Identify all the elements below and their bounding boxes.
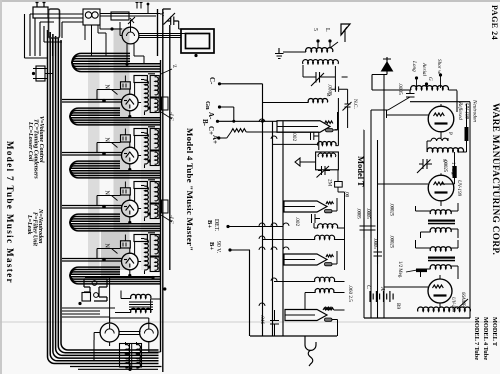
- svg-text:.00025: .00025: [442, 159, 447, 173]
- grid feed lines stage 4: [62, 206, 122, 209]
- svg-text:90 V.: 90 V.: [215, 241, 221, 254]
- svg-text:MODEL 7 Tube: MODEL 7 Tube: [473, 317, 480, 360]
- antenna coil T: [411, 86, 449, 90]
- svg-text:B9: B9: [395, 303, 401, 309]
- neutralizer label stage 2: [112, 90, 118, 95]
- svg-text:P: P: [447, 132, 453, 135]
- bottom border mid: [250, 335, 337, 337]
- tuning condenser mid: [311, 72, 326, 86]
- left bus T: [364, 75, 384, 319]
- antenna binding posts: [33, 66, 53, 81]
- wires tube V1 to loop: [139, 21, 186, 38]
- losser coil box stage 5: [150, 257, 159, 272]
- battery plug box: [33, 3, 48, 19]
- losser coil LC 1: [162, 97, 169, 110]
- RF transformer primary stage 2: [145, 80, 149, 111]
- svg-text:Long: Long: [411, 60, 417, 72]
- grid condenser stage 5: [121, 241, 131, 248]
- audio tube wiring: [94, 317, 161, 361]
- svg-text:Neutrodon: Neutrodon: [472, 99, 478, 122]
- small box top: [111, 12, 129, 20]
- svg-text:.00025: .00025: [389, 203, 394, 217]
- switch box: [49, 9, 60, 38]
- tube V2: [122, 94, 139, 111]
- coil8: [315, 277, 335, 281]
- long top double wire: [100, 14, 161, 17]
- speaker cord: [305, 336, 316, 366]
- wire U-bundle 5: [70, 267, 161, 284]
- svg-text:.0005: .0005: [372, 238, 377, 249]
- crossing hops: [259, 119, 289, 306]
- svg-text:C+: C+: [207, 126, 215, 135]
- tube V4: [122, 200, 139, 217]
- loop antenna box: [181, 29, 214, 53]
- svg-text:A+: A+: [211, 135, 219, 144]
- ground symbol mid: [275, 48, 284, 59]
- bottom border: [70, 364, 162, 369]
- svg-text:.002: .002: [294, 217, 300, 226]
- grid condenser stage 3: [121, 135, 131, 142]
- wire U-bundle 4: [70, 214, 161, 231]
- coil9: [315, 289, 334, 293]
- grid leak stage 3: [134, 129, 147, 136]
- wire V1 down: [127, 43, 144, 64]
- tube V7: [140, 323, 158, 341]
- RF transformer secondary stage 3: [150, 129, 159, 151]
- schematic right border: [158, 9, 170, 372]
- svg-text:-LC: -LC: [168, 112, 174, 121]
- svg-text:.0005: .0005: [365, 208, 370, 219]
- filament rheostat T: [418, 307, 471, 311]
- grid feed lines stage 5: [62, 259, 122, 262]
- tube V3: [122, 147, 139, 164]
- svg-text:.00025: .00025: [389, 235, 394, 249]
- svg-text:Model 4 Tube "Music Master": Model 4 Tube "Music Master": [185, 128, 195, 251]
- svg-text:N: N: [104, 191, 110, 196]
- tube T2: [428, 175, 454, 201]
- coil7: [315, 235, 335, 239]
- neutralizer label stage 5: [112, 249, 118, 254]
- grid resistor d: [323, 308, 334, 310]
- svg-text:Reflexed: Reflexed: [457, 101, 464, 120]
- antenna coupling wire: [283, 51, 306, 53]
- svg-text:MODEL 4 Tube: MODEL 4 Tube: [482, 317, 489, 360]
- svg-text:.0005: .0005: [356, 208, 361, 219]
- tuning condenser 2: [317, 166, 331, 178]
- svg-text:5: 5: [312, 28, 318, 31]
- svg-text:N.C.: N.C.: [352, 99, 358, 109]
- coil6: [318, 224, 338, 228]
- wire U-bundle 3: [70, 161, 161, 178]
- audio wiring upper: [85, 277, 161, 323]
- volume control V: [163, 9, 179, 25]
- neutralizer diag top: [128, 17, 135, 24]
- tube V6: [100, 323, 119, 342]
- stage wiring 5: [97, 233, 155, 276]
- svg-text:2M: 2M: [327, 179, 333, 187]
- svg-text:N: N: [104, 85, 110, 90]
- tuning condenser box TC: [83, 9, 100, 25]
- svg-text:'L: 'L: [171, 64, 177, 68]
- svg-text:G: G: [427, 77, 433, 81]
- svg-text:N: N: [104, 138, 110, 143]
- svg-text:B: B: [325, 93, 331, 97]
- grid feed lines stage 2: [62, 100, 122, 103]
- coil P: [431, 138, 448, 141]
- grid leak stage 2: [134, 76, 147, 83]
- primary coil: [306, 48, 333, 52]
- tube T3: [428, 279, 452, 303]
- RF transformer secondary stage 4: [150, 182, 159, 204]
- scan edge left: [0, 0, 2, 374]
- svg-text:-LC: -LC: [168, 215, 174, 224]
- svg-text:A: A: [379, 286, 385, 291]
- svg-text:Gn: Gn: [204, 101, 211, 110]
- svg-text:V: V: [158, 12, 164, 17]
- svg-text:UV-199: UV-199: [456, 180, 462, 197]
- main wiring bus bundle: [48, 30, 159, 364]
- transformer box mid: [316, 152, 339, 170]
- losser coil box stage 3: [150, 151, 159, 166]
- svg-text:.00: .00: [344, 191, 349, 198]
- antenna arrow T: [382, 62, 393, 71]
- RF transformer primary stage 5: [145, 239, 149, 270]
- interstage coil4: [318, 142, 336, 146]
- stage wiring 4: [97, 180, 155, 223]
- AF transformer T2: [430, 247, 451, 251]
- tube T1: [428, 106, 454, 132]
- plate feed to coil B: [263, 102, 308, 104]
- svg-text:Model 7 Tube Music Master: Model 7 Tube Music Master: [5, 141, 15, 284]
- output jack bracket: [84, 279, 107, 301]
- RF transformer secondary stage 2: [150, 76, 159, 98]
- svg-text:1/2 Meg.: 1/2 Meg.: [397, 261, 402, 278]
- borders T: [364, 317, 470, 319]
- AF transformer T1: [430, 210, 451, 214]
- svg-text:B+: B+: [206, 220, 213, 228]
- faint horizontal rule: [0, 321, 500, 323]
- svg-text:PAGE 24: PAGE 24: [490, 5, 499, 40]
- wire U-bundle 2: [70, 108, 161, 125]
- grid condenser stage 2: [121, 82, 131, 89]
- neutralizer label stage 4: [112, 196, 118, 201]
- top-left frame mesh: [25, 14, 84, 58]
- tube V1: [122, 27, 139, 44]
- tube A bullet: [277, 121, 330, 133]
- grid leak stage 5: [134, 235, 147, 242]
- ground arrow mid: [295, 158, 316, 166]
- bus verticals mid: [250, 84, 284, 336]
- losser coil box stage 2: [150, 98, 159, 113]
- stage wiring 2: [97, 74, 155, 117]
- leak L dashed label: [161, 69, 172, 74]
- secondary coil: [303, 60, 339, 64]
- neutralizer label stage 3: [112, 143, 118, 148]
- losser coil box stage 4: [150, 204, 159, 219]
- losser coil LC 2: [162, 200, 169, 213]
- jack small box: [82, 293, 91, 302]
- RF transformer secondary stage 5: [150, 235, 159, 257]
- N.C. capacitor: [343, 89, 352, 128]
- antenna mid: [341, 24, 350, 35]
- svg-text:L: L: [324, 28, 330, 32]
- svg-text:Aerial: Aerial: [421, 62, 427, 77]
- svg-text:LC=Losser Coil: LC=Losser Coil: [27, 121, 33, 162]
- coil S: [427, 148, 463, 152]
- tube B bullet: [284, 201, 327, 212]
- output transformer: [120, 344, 142, 368]
- tube V5: [122, 253, 139, 270]
- svg-text:DET.: DET.: [213, 219, 219, 232]
- shield shading columns: [114, 28, 130, 270]
- svg-text:N: N: [104, 244, 110, 249]
- svg-text:C-: C-: [208, 77, 216, 85]
- grid condenser stage 4: [121, 188, 131, 195]
- RF transformer primary stage 4: [145, 186, 149, 217]
- plate coil B: [308, 102, 309, 104]
- svg-text:Shor w.: Shor w.: [436, 59, 442, 74]
- grid leak stage 4: [134, 182, 147, 189]
- svg-text:L=Leak: L=Leak: [26, 214, 32, 234]
- wire U-bundle 1: [72, 53, 160, 71]
- svg-text:.0005: .0005: [397, 83, 403, 95]
- secondary circuit box: [303, 65, 335, 89]
- var cap T: [417, 159, 432, 173]
- AF transformer: [131, 294, 151, 298]
- svg-text:B+: B+: [208, 242, 215, 250]
- bus feed lines bottom: [62, 308, 100, 317]
- tube D bullet: [285, 310, 327, 321]
- svg-text:.046: .046: [259, 315, 265, 324]
- grid feed lines stage 3: [62, 153, 122, 156]
- scan edge top: [0, 0, 500, 2]
- stage wiring 3: [97, 127, 155, 170]
- svg-text:66AMP: 66AMP: [460, 292, 465, 307]
- tube C bullet: [284, 254, 327, 265]
- filament rheostat: [231, 129, 246, 132]
- RF transformer primary stage 3: [145, 133, 149, 164]
- svg-text:.060 2.5: .060 2.5: [347, 285, 353, 302]
- svg-text:.002: .002: [291, 132, 297, 141]
- grid coupling tubes 6-7: [119, 332, 140, 335]
- svg-text:MODEL T: MODEL T: [491, 317, 498, 347]
- svg-text:WARE MANUFACTURING CORP.: WARE MANUFACTURING CORP.: [490, 103, 500, 255]
